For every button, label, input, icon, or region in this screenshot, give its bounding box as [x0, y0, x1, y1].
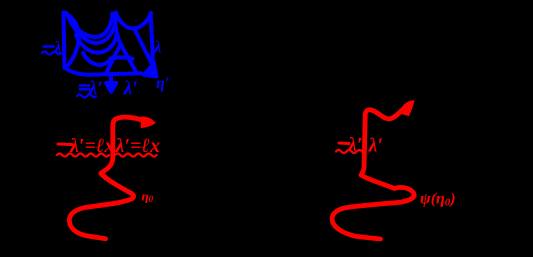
- svg-text:λ′=ℓx: λ′=ℓx: [115, 135, 160, 157]
- svg-text:λ′: λ′: [368, 135, 384, 157]
- svg-text:η′: η′: [156, 75, 169, 92]
- svg-text:λ′=ℓx: λ′=ℓx: [69, 135, 114, 157]
- red left figure: wavy underline (right text): [115, 154, 157, 157]
- red left figure: arrow head: [142, 117, 155, 127]
- blue surface: left leaf/fold curve: [64, 13, 79, 69]
- blue surface: right edge vertical line: [151, 14, 154, 64]
- blue label equals sign (bottom left): [80, 84, 89, 87]
- blue label tilde under equals (bottom left): [77, 95, 96, 98]
- blue down arrow head: [106, 83, 116, 92]
- svg-text:λ′: λ′: [88, 78, 104, 100]
- blue surface: left edge vertical line: [64, 13, 65, 69]
- blue surface: right sweeping fold curve: [135, 29, 153, 65]
- blue surface: filled corner wedge bottom right: [144, 64, 157, 77]
- blue surface: top right scallop arc: [116, 13, 151, 29]
- blue surface: inner drapery arc 1: [68, 16, 116, 43]
- blue label tilde of equals-tilde (left): [42, 52, 61, 55]
- red right figure: arrow head: [402, 101, 414, 115]
- svg-text:λ′: λ′: [123, 78, 139, 100]
- red right figure: wavy underline: [336, 150, 362, 153]
- svg-text:λ′: λ′: [347, 134, 363, 156]
- blue surface: top left scallop arc: [67, 13, 113, 37]
- blue surface: inner drapery arc 3: [83, 53, 113, 65]
- blue surface: A-fold crossbar: [111, 57, 133, 58]
- blue surface: A-fold right leg: [121, 44, 136, 71]
- blue down arrow shaft: [109, 76, 113, 84]
- svg-text:λ: λ: [153, 38, 162, 57]
- blue surface: bottom edge line: [66, 69, 141, 75]
- red left figure: arrow-and-snake stroke: [69, 117, 143, 239]
- blue surface: central fold line from top cusp: [115, 15, 121, 44]
- svg-text:λ: λ: [53, 38, 62, 57]
- blue surface: inner drapery arc 2: [76, 35, 117, 53]
- svg-text:ψ(η0): ψ(η0): [420, 191, 456, 209]
- red left figure: minus bar before lambda-prime: [58, 143, 72, 147]
- blue label bar of equals-tilde (left): [44, 45, 54, 48]
- red right figure: minus bar before lambda-prime: [339, 142, 349, 146]
- red right figure: arrow-and-snake stroke: [332, 108, 414, 240]
- red left figure: wavy underline (left text): [57, 154, 109, 157]
- blue surface: A-fold left leg: [107, 44, 121, 72]
